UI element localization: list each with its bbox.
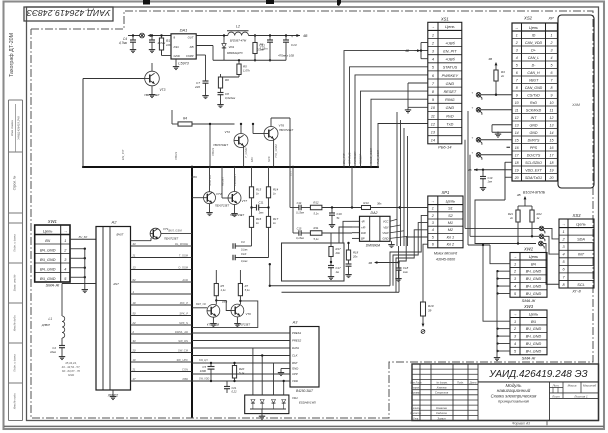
svg-text:C11: C11 bbox=[259, 201, 264, 205]
svg-text:CS/TxD: CS/TxD bbox=[527, 94, 540, 98]
svg-text:RESET: RESET bbox=[359, 153, 363, 164]
svg-text:Формат А3: Формат А3 bbox=[512, 421, 530, 425]
svg-text:R4: R4 bbox=[183, 117, 187, 121]
svg-text:12: 12 bbox=[550, 116, 554, 120]
svg-text:Зимин: Зимин bbox=[437, 416, 446, 420]
svg-text:ПБУ0723ЕТ: ПБУ0723ЕТ bbox=[279, 128, 294, 132]
svg-text:R5: R5 bbox=[221, 284, 225, 288]
svg-text:0,022мк: 0,022мк bbox=[225, 96, 236, 100]
svg-text:10: 10 bbox=[550, 101, 554, 105]
svg-text:→: → bbox=[63, 228, 67, 233]
svg-text:УАИД.426419.248 ЭЗ: УАИД.426419.248 ЭЗ bbox=[488, 369, 587, 380]
svg-text:VT3: VT3 bbox=[160, 88, 166, 92]
svg-text:19: 19 bbox=[550, 169, 554, 173]
svg-text:4: 4 bbox=[432, 228, 434, 232]
svg-text:CLK: CLK bbox=[292, 354, 298, 358]
svg-text:R12: R12 bbox=[313, 201, 319, 205]
svg-text:RESET: RESET bbox=[221, 176, 225, 186]
svg-text:ВЧ_GND: ВЧ_GND bbox=[40, 267, 56, 271]
svg-text:ВЧ: ВЧ bbox=[531, 262, 536, 266]
svg-text:5,1к: 5,1к bbox=[239, 371, 245, 375]
svg-text:COMP: COMP bbox=[186, 55, 194, 58]
svg-text:ВКЛ_GSM: ВКЛ_GSM bbox=[168, 229, 182, 233]
svg-text:0,1мк: 0,1мк bbox=[241, 260, 248, 263]
svg-text:SPK_N: SPK_N bbox=[179, 321, 188, 325]
svg-text:14: 14 bbox=[550, 131, 554, 135]
svg-text:SMA-Ж: SMA-Ж bbox=[46, 283, 60, 288]
svg-text:PWRKEY: PWRKEY bbox=[442, 74, 459, 78]
svg-text:21: 21 bbox=[132, 368, 136, 372]
svg-text:Кадиков: Кадиков bbox=[436, 411, 447, 415]
svg-text:1,07к: 1,07к bbox=[243, 69, 250, 73]
svg-text:Провер.: Провер. bbox=[411, 391, 421, 395]
svg-text:0,22: 0,22 bbox=[232, 390, 238, 394]
svg-text:GND: GND bbox=[446, 106, 455, 110]
svg-text:15: 15 bbox=[515, 139, 519, 143]
svg-text:10: 10 bbox=[515, 101, 519, 105]
svg-text:43045-0600: 43045-0600 bbox=[436, 258, 455, 262]
svg-text:Хамлов: Хамлов bbox=[436, 385, 447, 389]
svg-text:Цепь: Цепь bbox=[446, 198, 456, 203]
svg-text:CAN_H: CAN_H bbox=[527, 71, 540, 75]
svg-text:XS3: XS3 bbox=[572, 213, 582, 218]
svg-text:→: → bbox=[431, 24, 435, 29]
svg-text:D+: D+ bbox=[531, 49, 536, 53]
svg-text:А2: А2 bbox=[111, 220, 118, 225]
svg-text:1,1к: 1,1к bbox=[221, 288, 227, 292]
svg-text:Разраб.: Разраб. bbox=[411, 385, 421, 389]
svg-text:DM08ЮА: DM08ЮА bbox=[366, 244, 381, 248]
svg-text:SW_ЦЛ: SW_ЦЛ bbox=[199, 359, 208, 362]
svg-text:Инв.№ дубл.: Инв.№ дубл. bbox=[13, 315, 17, 332]
svg-text:20: 20 bbox=[514, 176, 519, 180]
svg-text:4В: 4В bbox=[368, 261, 372, 265]
svg-text:Тахограф ДТ-20М: Тахограф ДТ-20М bbox=[9, 33, 15, 77]
svg-text:1: 1 bbox=[551, 34, 553, 38]
svg-text:RxD: RxD bbox=[446, 114, 454, 118]
svg-text:VBUS: VBUS bbox=[174, 152, 178, 160]
svg-text:11: 11 bbox=[550, 109, 554, 113]
svg-text:ВЧ_GND: ВЧ_GND bbox=[526, 285, 542, 289]
svg-text:ВЧ_GND: ВЧ_GND bbox=[526, 292, 542, 296]
svg-text:C10: C10 bbox=[241, 252, 247, 256]
svg-text:RESET: RESET bbox=[444, 90, 457, 94]
svg-text:Molex MicroFit: Molex MicroFit bbox=[434, 252, 458, 256]
svg-text:УАИД.426419.248ЭЗ: УАИД.426419.248ЭЗ bbox=[26, 8, 111, 18]
svg-text:6: 6 bbox=[551, 71, 553, 75]
svg-text:ОВБ: ОВБ bbox=[191, 175, 197, 179]
svg-text:2к: 2к bbox=[509, 216, 514, 220]
svg-text:Цепь: Цепь bbox=[529, 26, 538, 30]
svg-text:А3: А3 bbox=[292, 321, 299, 325]
svg-text:ВЧ_ВХ: ВЧ_ВХ bbox=[79, 235, 88, 239]
svg-text:RST: RST bbox=[292, 361, 298, 365]
svg-text:L1: L1 bbox=[48, 317, 52, 321]
svg-text:ВЧ_GND: ВЧ_GND bbox=[40, 277, 56, 281]
svg-text:4В: 4В bbox=[517, 193, 521, 197]
svg-text:DL_MODE: DL_MODE bbox=[175, 242, 188, 246]
svg-text:ANT: ANT bbox=[112, 282, 119, 286]
svg-text:VD1: VD1 bbox=[229, 45, 235, 49]
svg-text:→: → bbox=[513, 254, 517, 259]
svg-text:ВЧ_GND: ВЧ_GND bbox=[40, 248, 56, 252]
svg-text:SMA-Ж: SMA-Ж bbox=[522, 355, 536, 360]
svg-text:VSW: VSW bbox=[382, 231, 389, 235]
svg-text:Масштаб: Масштаб bbox=[583, 383, 596, 387]
svg-text:Спров. №: Спров. № bbox=[13, 175, 17, 190]
svg-text:Цепь: Цепь bbox=[576, 221, 586, 226]
svg-text:CON: CON bbox=[182, 367, 188, 371]
svg-text:+UВб: +UВб bbox=[445, 58, 455, 62]
svg-text:ДЛВ97: ДЛВ97 bbox=[41, 323, 51, 327]
svg-text:STATUS: STATUS bbox=[348, 153, 352, 164]
svg-text:36к: 36к bbox=[377, 202, 382, 206]
svg-text:ПБУ0723ЕТ: ПБУ0723ЕТ bbox=[164, 237, 179, 241]
svg-text:C14: C14 bbox=[297, 201, 302, 205]
svg-text:В1024-8ПЛБ: В1024-8ПЛБ bbox=[523, 191, 546, 195]
svg-text:PPS: PPS bbox=[530, 146, 538, 150]
svg-text:T_GSM: T_GSM bbox=[179, 253, 189, 257]
svg-text:VD1: VD1 bbox=[292, 396, 298, 400]
svg-text:R13: R13 bbox=[363, 201, 369, 205]
svg-text:ВЧ_GND: ВЧ_GND bbox=[526, 350, 542, 354]
svg-text:CAN_L: CAN_L bbox=[528, 56, 540, 60]
svg-text:Н.контр.: Н.контр. bbox=[411, 411, 422, 415]
svg-text:Лист: Лист bbox=[551, 394, 560, 398]
svg-text:GND: GND bbox=[446, 82, 455, 86]
svg-text:XS2: XS2 bbox=[523, 16, 533, 21]
svg-text:DIR: DIR bbox=[361, 231, 366, 235]
svg-text:4: 4 bbox=[562, 253, 564, 257]
svg-text:Цепь: Цепь bbox=[43, 228, 53, 233]
svg-text:ХW3: ХW3 bbox=[523, 304, 534, 309]
svg-text:4В: 4В bbox=[303, 34, 308, 38]
svg-text:0,1мк: 0,1мк bbox=[257, 48, 265, 52]
svg-text:Цепь: Цепь bbox=[529, 254, 539, 259]
svg-text:13: 13 bbox=[550, 124, 554, 128]
svg-text:В4250-3ШТ: В4250-3ШТ bbox=[296, 389, 314, 393]
svg-text:ХР: ХР bbox=[547, 16, 554, 21]
svg-text:+: + bbox=[291, 35, 293, 39]
svg-text:4: 4 bbox=[514, 342, 516, 346]
svg-text:O_GSM: O_GSM bbox=[178, 265, 188, 269]
svg-text:GND: GND bbox=[530, 131, 538, 135]
svg-text:39: 39 bbox=[428, 309, 432, 313]
svg-text:1: 1 bbox=[64, 239, 66, 243]
svg-text:VDD_EXT: VDD_EXT bbox=[525, 169, 542, 173]
svg-text:L5973: L5973 bbox=[178, 62, 189, 66]
svg-text:1: 1 bbox=[516, 34, 518, 38]
svg-text:STATUS: STATUS bbox=[208, 175, 212, 186]
svg-text:4,7мк: 4,7мк bbox=[158, 41, 166, 45]
svg-text:4: 4 bbox=[514, 285, 516, 289]
svg-text:20: 20 bbox=[549, 176, 554, 180]
svg-text:M1: M1 bbox=[448, 221, 453, 225]
svg-text:Цепь: Цепь bbox=[529, 311, 539, 316]
svg-text:ВЧ_GND: ВЧ_GND bbox=[526, 335, 542, 339]
svg-text:AUD: AUD bbox=[181, 278, 188, 282]
svg-text:C13: C13 bbox=[291, 43, 297, 47]
svg-text:Ковалев: Ковалев bbox=[436, 406, 447, 410]
svg-text:10мк: 10мк bbox=[50, 350, 57, 354]
svg-text:SCK/RxD: SCK/RxD bbox=[526, 109, 542, 113]
svg-text:DWNL_AD: DWNL_AD bbox=[175, 330, 188, 334]
svg-text:C21: C21 bbox=[232, 386, 237, 390]
svg-text:VT4: VT4 bbox=[216, 192, 222, 196]
svg-text:4: 4 bbox=[516, 56, 518, 60]
svg-text:11: 11 bbox=[515, 109, 519, 113]
svg-text:Инв.№ подл.: Инв.№ подл. bbox=[13, 392, 17, 409]
svg-text:13: 13 bbox=[515, 124, 519, 128]
svg-text:5,1к: 5,1к bbox=[245, 288, 251, 292]
svg-text:ХW1: ХW1 bbox=[47, 219, 57, 224]
svg-text:1мк: 1мк bbox=[488, 180, 493, 184]
svg-text:GND: GND bbox=[174, 54, 180, 58]
svg-text:RING: RING bbox=[445, 98, 455, 102]
svg-text:8: 8 bbox=[516, 86, 518, 90]
svg-text:Изм.Лист: Изм.Лист bbox=[410, 381, 421, 384]
svg-text:M2: M2 bbox=[448, 228, 454, 232]
svg-text:0,13мк: 0,13мк bbox=[296, 212, 305, 215]
svg-text:SCL/SDIO: SCL/SDIO bbox=[525, 161, 542, 165]
svg-text:DI/RTS: DI/RTS bbox=[528, 139, 540, 143]
svg-text:РБ6-14: РБ6-14 bbox=[438, 144, 452, 149]
svg-text:1: 1 bbox=[514, 262, 516, 266]
svg-text:C15: C15 bbox=[297, 227, 302, 231]
svg-text:VT9: VT9 bbox=[246, 312, 252, 316]
svg-text:5: 5 bbox=[516, 64, 518, 68]
svg-text:1м: 1м bbox=[336, 270, 340, 274]
svg-text:0,13мк: 0,13мк bbox=[296, 237, 305, 240]
svg-text:2: 2 bbox=[550, 41, 553, 45]
svg-text:ХГ-8: ХГ-8 bbox=[571, 289, 581, 294]
svg-text:PRES1: PRES1 bbox=[292, 331, 302, 335]
svg-text:CAN_VDD: CAN_VDD bbox=[525, 41, 543, 45]
svg-text:EN_PIT: EN_PIT bbox=[121, 148, 125, 160]
svg-text:3: 3 bbox=[551, 49, 553, 53]
svg-text:ВЧ_GND: ВЧ_GND bbox=[40, 258, 56, 262]
svg-text:ВЧ: ВЧ bbox=[531, 320, 536, 324]
svg-text:Дата: Дата bbox=[469, 380, 477, 384]
svg-text:VBUS: VBUS bbox=[211, 148, 215, 156]
svg-text:ESDA6V1W5: ESDA6V1W5 bbox=[299, 401, 316, 405]
svg-text:MIC_P: MIC_P bbox=[180, 301, 188, 305]
svg-text:8: 8 bbox=[551, 86, 553, 90]
svg-text:11: 11 bbox=[431, 114, 435, 118]
svg-text:470мк x 10В: 470мк x 10В bbox=[278, 54, 294, 58]
svg-text:+IR: +IR bbox=[361, 225, 365, 229]
svg-text:TxD_GSM: TxD_GSM bbox=[376, 149, 380, 164]
svg-text:PWRKEY: PWRKEY bbox=[353, 150, 357, 164]
svg-text:12: 12 bbox=[515, 116, 519, 120]
svg-text:Т.контр.: Т.контр. bbox=[411, 406, 422, 410]
svg-text:ВЧ_GND: ВЧ_GND bbox=[526, 270, 542, 274]
svg-text:GND: GND bbox=[292, 367, 298, 371]
svg-text:SCL: SCL bbox=[577, 283, 584, 287]
svg-text:ВР: ВР bbox=[361, 237, 365, 241]
svg-text:УАИД.426419.2Ч8: УАИД.426419.2Ч8 bbox=[17, 116, 21, 140]
svg-text:SMA-Ж: SMA-Ж bbox=[522, 298, 536, 303]
svg-text:GND: GND bbox=[68, 373, 74, 377]
svg-text:VT2: VT2 bbox=[224, 130, 230, 134]
svg-text:21: 21 bbox=[132, 254, 136, 258]
svg-text:ID: ID bbox=[532, 34, 536, 38]
svg-text:GND: GND bbox=[383, 237, 389, 241]
svg-text:XS1: XS1 bbox=[440, 16, 449, 21]
svg-text:2к: 2к bbox=[500, 74, 505, 78]
svg-text:Утв.: Утв. bbox=[413, 416, 419, 420]
svg-text:ХАМ: ХАМ bbox=[571, 103, 580, 107]
svg-text:1: 1 bbox=[562, 230, 564, 234]
svg-text:SDA: SDA bbox=[577, 238, 585, 242]
svg-text:DATA: DATA bbox=[292, 346, 299, 350]
svg-text:ВЛ2067-47М: ВЛ2067-47М bbox=[230, 39, 247, 43]
svg-text:RING_GSM: RING_GSM bbox=[369, 147, 373, 164]
svg-text:GND: GND bbox=[530, 124, 538, 128]
svg-text:SPK: SPK bbox=[267, 156, 271, 162]
svg-text:Масса: Масса bbox=[568, 383, 577, 387]
svg-text:DA2: DA2 bbox=[371, 211, 378, 215]
svg-text:S1: S1 bbox=[448, 207, 453, 211]
svg-text:4: 4 bbox=[551, 56, 553, 60]
svg-text:FB: FB bbox=[190, 45, 194, 49]
svg-text:1мк: 1мк bbox=[259, 211, 264, 215]
svg-text:19: 19 bbox=[515, 169, 519, 173]
svg-text:20к: 20к bbox=[352, 255, 358, 259]
svg-text:→: → bbox=[431, 198, 435, 203]
svg-text:VBUT: VBUT bbox=[529, 79, 539, 83]
svg-text:SW_UPC: SW_UPC bbox=[177, 358, 189, 362]
svg-text:1000: 1000 bbox=[200, 369, 207, 373]
svg-text:DO/CTS: DO/CTS bbox=[527, 154, 541, 158]
svg-text:VT7: VT7 bbox=[242, 199, 248, 203]
svg-text:ВЧ_GND: ВЧ_GND bbox=[526, 342, 542, 346]
svg-text:EN_PIT: EN_PIT bbox=[443, 50, 457, 54]
svg-text:L2: L2 bbox=[236, 25, 240, 29]
svg-text:CAN_GND: CAN_GND bbox=[525, 86, 543, 90]
svg-text:RxD: RxD bbox=[530, 101, 537, 105]
svg-text:ВЧ: ВЧ bbox=[45, 239, 50, 243]
svg-text:ХР1: ХР1 bbox=[440, 190, 449, 195]
svg-text:R11: R11 bbox=[314, 226, 319, 230]
svg-text:INT: INT bbox=[531, 116, 538, 120]
svg-text:Цепь: Цепь bbox=[445, 24, 455, 29]
svg-text:T/O_GSM: T/O_GSM bbox=[274, 144, 278, 158]
svg-text:OUT: OUT bbox=[290, 170, 293, 176]
svg-text:PWRKEY: PWRKEY bbox=[233, 173, 237, 186]
svg-text:-IR: -IR bbox=[361, 220, 365, 224]
svg-text:SW_CM: SW_CM bbox=[178, 348, 189, 352]
svg-text:Листов 1: Листов 1 bbox=[573, 394, 588, 398]
svg-text:STATUS: STATUS bbox=[443, 66, 458, 70]
svg-text:9: 9 bbox=[516, 94, 518, 98]
svg-text:Кл 1: Кл 1 bbox=[447, 235, 455, 239]
svg-text:UPP: UPP bbox=[292, 372, 298, 376]
svg-text:VБУ: VБУ bbox=[383, 225, 388, 229]
svg-text:4В: 4В bbox=[488, 57, 492, 61]
svg-text:ХW2: ХW2 bbox=[523, 247, 534, 252]
svg-text:PRES2: PRES2 bbox=[292, 339, 302, 343]
svg-text:4: 4 bbox=[432, 58, 434, 62]
svg-text:OUT: OUT bbox=[188, 36, 194, 40]
svg-text:16: 16 bbox=[550, 146, 554, 150]
svg-text:SW_VDD: SW_VDD bbox=[199, 378, 210, 381]
svg-text:C2: C2 bbox=[52, 346, 56, 350]
svg-text:Взам. инв.№: Взам. инв.№ bbox=[13, 275, 17, 292]
svg-text:20: 20 bbox=[132, 349, 136, 353]
svg-text:14: 14 bbox=[515, 131, 519, 135]
svg-text:R7: R7 bbox=[245, 284, 249, 288]
svg-text:EN_PIT: EN_PIT bbox=[342, 152, 346, 164]
svg-text:5,1к: 5,1к bbox=[313, 212, 319, 216]
svg-text:20к: 20к bbox=[335, 251, 341, 255]
svg-text:3: 3 bbox=[516, 49, 518, 53]
svg-text:INT: INT bbox=[578, 253, 585, 257]
svg-text:R19: R19 bbox=[428, 304, 434, 308]
svg-text:SW_DN: SW_DN bbox=[178, 339, 188, 343]
svg-text:16: 16 bbox=[515, 146, 519, 150]
svg-text:1мк: 1мк bbox=[403, 270, 408, 274]
svg-text:1: 1 bbox=[432, 207, 434, 211]
svg-text:Изм. помчи: Изм. помчи bbox=[10, 120, 14, 136]
svg-text:15: 15 bbox=[550, 139, 554, 143]
svg-text:9: 9 bbox=[551, 94, 553, 98]
svg-text:VDD: VDD bbox=[292, 379, 298, 383]
svg-text:принципиальная: принципиальная bbox=[498, 398, 530, 403]
svg-text:2: 2 bbox=[515, 41, 518, 45]
svg-text:DA1: DA1 bbox=[180, 28, 188, 33]
svg-text:Подп. и дата: Подп. и дата bbox=[13, 354, 17, 372]
svg-text:18: 18 bbox=[515, 161, 519, 165]
svg-text:SDA/TxD1: SDA/TxD1 bbox=[525, 176, 542, 180]
svg-text:ВЧ_GND: ВЧ_GND bbox=[526, 327, 542, 331]
svg-text:ВЧ_GND: ВЧ_GND bbox=[526, 277, 542, 281]
svg-text:ВЧ0Т: ВЧ0Т bbox=[117, 232, 124, 236]
svg-text:Подп.: Подп. bbox=[457, 380, 464, 384]
svg-text:Подп. и дата: Подп. и дата bbox=[13, 234, 17, 252]
svg-text:4,7мк: 4,7мк bbox=[119, 41, 128, 45]
svg-text:Стариков: Стариков bbox=[435, 391, 449, 395]
svg-text:51: 51 bbox=[337, 216, 341, 220]
svg-text:→: → bbox=[515, 26, 519, 30]
svg-text:VT6: VT6 bbox=[279, 124, 285, 128]
svg-text:MBRS4Ц0ТЗ: MBRS4Ц0ТЗ bbox=[227, 51, 243, 55]
svg-text:24: 24 bbox=[132, 321, 136, 325]
svg-text:220: 220 bbox=[194, 85, 200, 89]
svg-text:+UВб: +UВб bbox=[445, 41, 455, 45]
svg-text:4: 4 bbox=[64, 267, 66, 271]
svg-text:5: 5 bbox=[551, 64, 553, 68]
svg-text:14: 14 bbox=[431, 139, 435, 143]
svg-text:VCC: VCC bbox=[383, 220, 389, 224]
svg-text:R6: R6 bbox=[225, 78, 229, 82]
svg-text:→: → bbox=[513, 311, 517, 316]
svg-text:18: 18 bbox=[550, 161, 554, 165]
svg-text:5,1к: 5,1к bbox=[313, 237, 319, 241]
svg-text:Кл 2: Кл 2 bbox=[447, 243, 455, 247]
svg-text:→: → bbox=[562, 221, 566, 226]
svg-text:№ докум.: № докум. bbox=[436, 380, 448, 384]
svg-text:C19: C19 bbox=[488, 176, 493, 180]
svg-text:INH: INH bbox=[174, 45, 180, 49]
svg-text:ПБУ0723ЕТ: ПБУ0723ЕТ bbox=[215, 204, 230, 208]
svg-text:1: 1 bbox=[432, 33, 434, 37]
svg-text:TxD: TxD bbox=[446, 122, 453, 126]
svg-text:T_GSM: T_GSM bbox=[244, 147, 248, 158]
svg-text:Лит.: Лит. bbox=[551, 383, 559, 387]
svg-text:навигационный: навигационный bbox=[497, 387, 531, 393]
svg-text:ПБУ0723ЕТ: ПБУ0723ЕТ bbox=[213, 143, 228, 147]
